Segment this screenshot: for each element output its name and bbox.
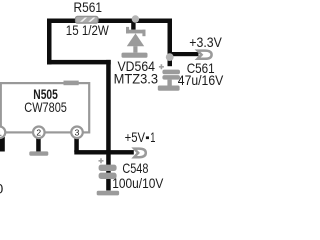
wire: pin 1 stub (0, 137, 5, 152)
svg-text:+5V: +5V (125, 129, 146, 145)
IC box N505 (CW7805 regulator) (1, 83, 89, 132)
ground (below pin 2) (29, 151, 48, 155)
ground (below VD564) (122, 53, 148, 58)
ground (below C561) (158, 86, 180, 91)
wire: pin 2 stub (36, 137, 41, 152)
off-page connector +3.3V (198, 51, 212, 59)
svg-text:MTZ3.3: MTZ3.3 (114, 70, 159, 86)
svg-text:100u/10V: 100u/10V (112, 175, 164, 191)
svg-text:R561: R561 (74, 0, 103, 15)
wire: zener top lead (131, 22, 135, 30)
node A: junction dot at zener tap (132, 15, 139, 22)
gray stub on top edge of N505 box (64, 81, 79, 86)
label dash (146, 136, 149, 139)
svg-text:1: 1 (150, 129, 155, 145)
svg-text:+3.3V: +3.3V (189, 34, 222, 50)
svg-text:47u/16V: 47u/16V (178, 72, 224, 88)
svg-text:C548: C548 (122, 160, 148, 176)
zener diode VD564 (126, 27, 146, 53)
capacitor C561 (159, 64, 180, 85)
svg-text:1: 1 (0, 128, 2, 138)
resistor R561 (76, 16, 99, 23)
svg-text:CW7805: CW7805 (24, 99, 67, 115)
svg-text:3: 3 (75, 128, 80, 138)
wire: left vertical (47, 19, 52, 65)
wire: main vertical (through C548) (106, 60, 111, 191)
off-page connector +5V (134, 149, 146, 158)
pin 1 (0, 127, 5, 139)
svg-text:15 1/2W: 15 1/2W (66, 22, 110, 38)
wire: right vertical (to +3.3V node) (168, 19, 173, 67)
wire: top horizontal (R561 rail) (47, 19, 172, 24)
pin 3 (71, 127, 83, 139)
svg-text:0: 0 (0, 181, 4, 197)
pin 2 (33, 127, 45, 139)
ground (below C548) (97, 191, 119, 196)
wire: +5V rail horizontal (74, 150, 134, 154)
svg-text:2: 2 (36, 128, 41, 138)
wire: pin 3 drop (74, 138, 79, 153)
wire: middle horizontal (47, 60, 111, 65)
capacitor C548 (99, 158, 117, 179)
wire: +3.3V horizontal (168, 52, 199, 56)
node B: junction dot at +3.3V node (166, 53, 174, 61)
